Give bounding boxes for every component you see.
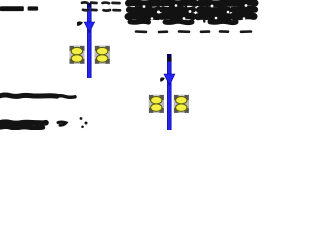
note T1 (dense handwritten text block top-right, line 1) <box>129 2 256 10</box>
panel P1 (atoms+electrons left of wire L) <box>70 46 85 64</box>
tick L (black mark left of arrow) <box>77 21 83 26</box>
filler strokes between text lines <box>131 13 252 14</box>
descender dashes below text block <box>136 30 251 33</box>
wire R (right current-carrying wire) <box>167 54 171 130</box>
white gaps inside text block <box>143 4 248 20</box>
panel P3 (atoms+electrons left of wire R) <box>149 95 164 113</box>
vertical strokes inside text block <box>136 2 253 22</box>
scribble B1 (bottom-left annotation line 1) <box>0 122 46 123</box>
scribble B1b (filler between bottom-left lines) <box>2 123 27 127</box>
note S1 (small scribble text near wire L top) <box>82 2 120 10</box>
wire L (left current-carrying wire) <box>87 3 91 78</box>
nub R (black mark at right wire top) <box>167 57 172 61</box>
bar B (short black bar top-left) <box>28 6 38 10</box>
dots (specks right of bottom scribbles) <box>80 117 88 128</box>
arrow L (current direction down) <box>84 22 94 32</box>
tick R (black mark left of arrow) <box>160 77 165 82</box>
arrow R (current direction down) <box>164 74 175 85</box>
note T2 (dense handwritten text block top-right, line 2) <box>128 16 254 23</box>
scribble B3 (small marks near 58-72,121-127) <box>58 122 66 125</box>
panel P4 (atoms+electrons right of wire R) <box>174 95 189 113</box>
scribble B2 (bottom-left annotation line 2) <box>1 127 43 128</box>
panel P2 (atoms+electrons right of wire L) <box>95 46 110 64</box>
bar A (black bar top-left) <box>0 6 24 11</box>
squiggle (thick wavy annotation line, mid-left) <box>0 95 57 96</box>
